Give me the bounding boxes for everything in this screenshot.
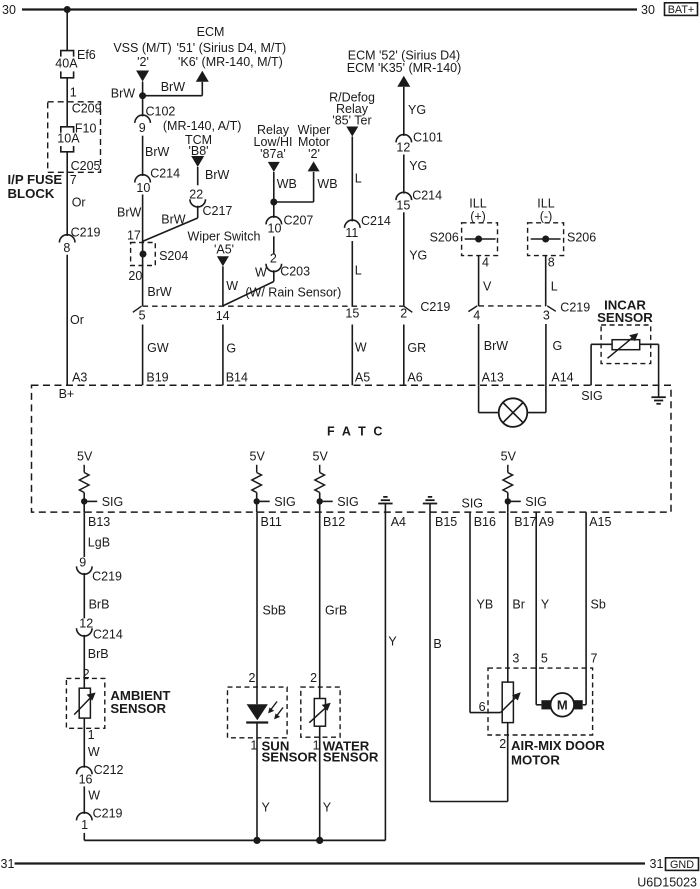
arrow to ECM '52' <box>397 76 410 87</box>
svg-text:8: 8 <box>63 241 70 255</box>
lamp wire right <box>527 385 546 412</box>
wire B12 to water sensor <box>319 512 321 698</box>
label I/P FUSE BLOCK <box>8 172 63 201</box>
wire C214-11 to C219 row <box>351 241 353 306</box>
svg-text:C219: C219 <box>71 225 101 239</box>
wire S206- to C219 <box>545 256 547 306</box>
wire C217 stub <box>197 206 199 218</box>
wire C219-9 to C214-12 <box>83 573 85 618</box>
svg-text:16: 16 <box>79 773 93 787</box>
svg-text:'85' Ter: '85' Ter <box>332 114 371 128</box>
splice S206 (-) dot <box>542 236 549 243</box>
label L (lower) <box>355 263 362 277</box>
svg-text:2: 2 <box>499 737 506 751</box>
label W (A5) <box>355 341 367 355</box>
svg-text:YG: YG <box>409 248 427 262</box>
svg-text:3: 3 <box>543 309 550 323</box>
svg-text:L: L <box>551 279 558 293</box>
svg-text:W: W <box>88 789 100 803</box>
label Ef6 <box>77 48 96 62</box>
label BrB (lower) <box>88 647 109 661</box>
wire 4 to A13 <box>478 324 480 385</box>
svg-text:SIG: SIG <box>274 495 296 509</box>
wire B15 down-right to motor pin 2 <box>430 512 508 801</box>
label Y (A9) <box>541 598 550 612</box>
C219 right seg left tick <box>468 306 477 312</box>
label F A T C <box>327 424 385 438</box>
label Y (A4) <box>388 635 397 649</box>
splice S206 (-) dashed box <box>528 223 564 256</box>
resistor 5V (B13) <box>79 465 89 493</box>
svg-text:'2': '2' <box>308 147 320 161</box>
label BrW (C102-C214) <box>145 145 170 159</box>
svg-text:1: 1 <box>70 85 77 99</box>
svg-text:C101: C101 <box>413 131 443 145</box>
svg-text:'A5': 'A5' <box>214 242 234 256</box>
svg-text:Wiper Switch: Wiper Switch <box>188 229 261 243</box>
pin 2 (C219) <box>400 307 407 321</box>
wire C203 stub <box>273 270 275 281</box>
wire C101 to C214 <box>403 155 405 194</box>
svg-text:BrW: BrW <box>147 285 172 299</box>
pin B16 <box>474 515 496 529</box>
svg-text:BrW: BrW <box>145 145 170 159</box>
svg-text:W: W <box>226 279 238 293</box>
wire 3 to A14 <box>545 324 547 385</box>
svg-text:G: G <box>226 341 236 355</box>
wire sun sensor to ground bus <box>256 723 258 841</box>
SIG stub (B17) <box>508 500 521 502</box>
label SIG (B13) <box>102 495 124 509</box>
svg-text:Y: Y <box>323 801 332 815</box>
pin A3 <box>72 371 87 385</box>
label ECM '52' (Sirius D4) <box>348 49 460 63</box>
svg-text:1: 1 <box>313 738 320 752</box>
label G (A14) <box>553 339 563 353</box>
svg-text:31: 31 <box>1 857 15 871</box>
pin 2 (sun) <box>249 671 256 685</box>
label '2' <box>137 55 149 69</box>
label SbB <box>263 604 287 618</box>
svg-text:11: 11 <box>345 226 358 240</box>
svg-text:BrB: BrB <box>88 647 109 661</box>
wire 5 to B19 <box>142 325 144 386</box>
svg-text:A13: A13 <box>482 370 504 384</box>
pin B12 <box>323 515 345 529</box>
SIG node dot (B11) <box>254 498 260 504</box>
label 10A <box>57 132 80 146</box>
svg-text:B15: B15 <box>435 515 457 529</box>
svg-text:YG: YG <box>409 159 427 173</box>
junction dot (sun) <box>253 837 260 844</box>
ground (incar) <box>651 397 665 404</box>
svg-text:B16: B16 <box>474 515 496 529</box>
svg-text:2: 2 <box>249 671 256 685</box>
label Y (sun) <box>262 801 271 815</box>
label Sb <box>591 598 606 612</box>
connector C214 pin 15 <box>396 188 442 212</box>
wire wiper switch to C219 row <box>222 266 224 306</box>
label TCM <box>185 133 212 147</box>
label YG (mid) <box>409 159 427 173</box>
svg-text:BrW: BrW <box>117 205 142 219</box>
label C219 row <box>420 300 450 314</box>
label BrW left of wire 2 <box>117 205 142 219</box>
label W (C203) <box>255 265 267 279</box>
wire pot pin 2 down <box>507 723 509 802</box>
svg-text:7: 7 <box>591 652 598 666</box>
connector C219 pin 9 <box>77 555 123 583</box>
svg-text:'87a': '87a' <box>260 147 286 161</box>
svg-text:YG: YG <box>408 103 426 117</box>
label G (B14) <box>226 341 236 355</box>
connector C212 pin 16 <box>77 763 124 787</box>
label L (upper) <box>355 172 362 186</box>
svg-text:LgB: LgB <box>88 535 110 549</box>
svg-text:C214: C214 <box>93 627 123 641</box>
svg-text:C219: C219 <box>93 807 123 821</box>
label 30 right <box>641 3 655 17</box>
pin 14 <box>216 309 230 323</box>
5V supply (B13) <box>77 450 93 464</box>
splice S206 (+) dot <box>475 236 482 243</box>
wire B13 down <box>83 512 85 557</box>
splice S206 (-) bar <box>531 238 561 240</box>
svg-text:5V: 5V <box>313 450 329 464</box>
pin 20 <box>128 269 142 283</box>
label '51' (Sirius D4, M/T) <box>177 41 287 55</box>
svg-text:30: 30 <box>641 3 655 17</box>
svg-text:15: 15 <box>345 307 359 321</box>
bus 30 (BAT+) wire <box>22 8 637 10</box>
wire C214-15 to C219 row <box>403 212 405 306</box>
svg-text:VSS (M/T): VSS (M/T) <box>113 41 171 55</box>
label Or (lower) <box>70 313 84 327</box>
svg-text:GR: GR <box>407 341 426 355</box>
SIG stub (B13) <box>84 500 97 502</box>
svg-text:L: L <box>355 172 362 186</box>
svg-text:C102: C102 <box>146 105 176 119</box>
label SIG (incar) <box>581 389 603 403</box>
svg-text:C214: C214 <box>412 188 442 202</box>
svg-text:C207: C207 <box>284 214 314 228</box>
svg-text:(W/ Rain Sensor): (W/ Rain Sensor) <box>245 285 341 299</box>
svg-text:M: M <box>557 698 568 713</box>
connector C214 pin 12 <box>77 617 123 642</box>
label GW <box>147 341 169 355</box>
svg-text:2: 2 <box>310 671 317 685</box>
svg-text:GW: GW <box>147 341 169 355</box>
GND terminal box <box>666 858 699 871</box>
svg-text:5V: 5V <box>250 450 266 464</box>
pin B17 <box>514 515 536 529</box>
wire C214-10 to S204 <box>142 195 144 243</box>
svg-text:Or: Or <box>70 313 84 327</box>
label SIG (B17) <box>525 495 547 509</box>
connector C101 pin 12 <box>396 131 443 155</box>
SIG node dot (B12) <box>317 498 323 504</box>
svg-text:7: 7 <box>70 173 77 187</box>
label Relay Low/HI '87a' <box>254 123 293 161</box>
arrow from Relay Low/HI <box>268 162 280 172</box>
svg-text:2: 2 <box>400 307 407 321</box>
ground (B15) <box>423 497 437 512</box>
5V supply (B11) <box>250 450 266 464</box>
wire C212 to C219-1 <box>83 786 85 814</box>
sun sensor photodiode <box>246 702 283 723</box>
wire A4 to ground bus <box>384 512 386 840</box>
wire VSS arrow to junction <box>142 82 144 117</box>
svg-text:W: W <box>355 341 367 355</box>
svg-text:SbB: SbB <box>263 604 287 618</box>
svg-text:10A: 10A <box>57 132 80 146</box>
svg-text:5: 5 <box>541 652 548 666</box>
label ECM 'K35' (MR-140) <box>347 61 462 75</box>
resistor 5V (B17) <box>503 465 513 493</box>
svg-text:BAT+: BAT+ <box>668 4 695 16</box>
svg-text:31: 31 <box>650 857 664 871</box>
svg-text:Y: Y <box>541 598 550 612</box>
pin 2 (motor) <box>499 737 506 751</box>
splice S206 (+) bar <box>465 238 496 240</box>
connector C214 pin 11 <box>345 214 391 240</box>
arrow from TCM 'B8' <box>191 156 204 167</box>
pin 2 (water) <box>310 671 317 685</box>
BAT+ terminal box <box>665 3 698 16</box>
svg-text:B17: B17 <box>514 515 536 529</box>
connector C203 pin 2 <box>266 251 310 278</box>
pin B13 <box>88 515 110 529</box>
pin A14 <box>551 370 573 384</box>
connector C207 pin 10 <box>266 214 313 236</box>
svg-text:U6D15023: U6D15023 <box>637 876 697 889</box>
5V supply (B17) <box>501 450 517 464</box>
svg-text:SENSOR: SENSOR <box>597 310 653 325</box>
label S206 (+) <box>430 230 459 244</box>
connector C217 pin 22 <box>189 187 232 217</box>
svg-text:4: 4 <box>482 256 489 270</box>
label GR <box>407 341 426 355</box>
label INCAR SENSOR <box>597 298 653 325</box>
I/P fuse block dashed box <box>48 102 101 173</box>
svg-text:B: B <box>433 637 441 651</box>
air-mix motor dashed box <box>488 668 593 735</box>
label BrW (A13) <box>484 339 509 353</box>
label Wiper Motor '2' <box>298 123 331 161</box>
svg-text:12: 12 <box>396 141 410 155</box>
label (MR-140, A/T) <box>163 119 242 133</box>
label WB (right) <box>317 177 337 191</box>
svg-text:SIG: SIG <box>337 495 359 509</box>
splice S206 (+) dashed box <box>462 223 498 256</box>
pin A9 <box>539 515 554 529</box>
label BrW left of VSS junction <box>111 87 136 101</box>
ambient sensor thermistor <box>74 688 95 718</box>
pin B+ <box>59 387 75 401</box>
wire A15 to motor <box>583 512 586 705</box>
label YG (lower) <box>409 248 427 262</box>
resistor 5V (B11) <box>252 465 262 493</box>
connector C214 pin 10 <box>135 167 180 196</box>
svg-text:Ef6: Ef6 <box>77 48 96 62</box>
label W (lower) <box>88 789 100 803</box>
label 'K6' (MR-140, M/T) <box>178 55 283 69</box>
label W (wiper) <box>226 279 238 293</box>
svg-text:(+): (+) <box>470 210 486 224</box>
fuse Ef6 40A <box>61 51 74 78</box>
svg-text:9: 9 <box>79 555 86 569</box>
svg-text:BrW: BrW <box>484 339 509 353</box>
wire resistor to SIG node (B17) <box>507 493 509 513</box>
connector C102 pin 9 <box>135 105 176 135</box>
arrow from VSS <box>136 71 149 82</box>
wire ECM arrow to C101 <box>403 87 405 136</box>
svg-text:SENSOR: SENSOR <box>110 701 166 716</box>
svg-text:4: 4 <box>473 309 480 323</box>
svg-text:Y: Y <box>388 635 397 649</box>
connector C219 row dashed line <box>143 305 404 307</box>
label BrW above link <box>161 80 186 94</box>
wire C207 to C203 <box>273 236 275 254</box>
label Br <box>512 598 525 612</box>
wire B16 to wiper pin 6 <box>470 512 500 713</box>
svg-text:C214: C214 <box>150 167 180 181</box>
label (W/ Rain Sensor) <box>245 285 341 299</box>
svg-text:C212: C212 <box>94 763 124 777</box>
label S204 <box>159 249 188 263</box>
svg-text:BrW: BrW <box>111 87 136 101</box>
wire TCM arrow to C217 <box>197 167 199 185</box>
svg-text:2: 2 <box>270 251 277 265</box>
pin 7 <box>591 652 598 666</box>
motor M <box>541 693 582 717</box>
wire 15 to A5 <box>351 325 353 386</box>
svg-text:AIR-MIX DOOR: AIR-MIX DOOR <box>511 738 605 753</box>
label SIG (B11) <box>274 495 296 509</box>
svg-text:10: 10 <box>268 222 282 236</box>
svg-text:1: 1 <box>250 738 257 752</box>
svg-text:WB: WB <box>317 177 337 191</box>
pin 3 (C219) <box>543 309 550 323</box>
svg-text:G: G <box>553 339 563 353</box>
label SUN SENSOR <box>262 739 318 765</box>
svg-text:14: 14 <box>216 309 230 323</box>
label GrB <box>325 604 347 618</box>
label L (S206) <box>551 279 558 293</box>
svg-text:SIG: SIG <box>581 389 603 403</box>
water sensor dashed box <box>301 687 340 737</box>
svg-text:S204: S204 <box>159 249 188 263</box>
pin A6 <box>407 370 422 384</box>
svg-text:10: 10 <box>136 181 150 195</box>
svg-text:40A: 40A <box>55 57 78 71</box>
splice S204 dashed box <box>131 243 156 266</box>
label ILL (+) <box>469 197 486 224</box>
wire BrW junction to ECM arrow <box>143 82 203 96</box>
svg-text:ECM: ECM <box>197 25 225 39</box>
wire relay to WB junction <box>273 172 275 218</box>
incar wire right <box>640 344 659 397</box>
arrow from R/Defog relay <box>346 127 358 137</box>
svg-text:BrB: BrB <box>89 597 110 611</box>
drawing number U6D15023 <box>637 876 697 889</box>
diagonal wire C203 to pin 14 <box>223 282 273 306</box>
wire ambient to C212 <box>83 718 85 768</box>
svg-text:Y: Y <box>262 801 271 815</box>
wire F10 to C219 <box>66 152 68 236</box>
svg-text:17: 17 <box>127 229 141 243</box>
svg-text:C219: C219 <box>92 569 122 583</box>
svg-text:C209: C209 <box>72 101 102 115</box>
pin 4 (S206) <box>482 256 489 270</box>
svg-text:V: V <box>483 279 492 293</box>
label Or (upper) <box>72 195 86 209</box>
svg-text:A3: A3 <box>72 371 87 385</box>
FATC dashed box <box>32 385 672 512</box>
svg-text:F A T C: F A T C <box>327 424 385 438</box>
svg-text:W: W <box>255 265 267 279</box>
svg-text:1: 1 <box>81 818 88 832</box>
label ILL (-) <box>537 197 554 224</box>
svg-text:A5: A5 <box>355 370 370 384</box>
svg-text:B12: B12 <box>323 515 345 529</box>
pin 17 <box>127 229 141 243</box>
svg-text:Or: Or <box>72 195 86 209</box>
pin 3 <box>512 652 519 666</box>
wire S206+ to C219 <box>478 256 480 306</box>
5V supply (B12) <box>313 450 329 464</box>
sensor ground bus wire <box>84 839 385 841</box>
pin 1 (water) <box>313 738 320 752</box>
wire Ef6 to fuse block <box>66 78 68 127</box>
incar sensor dashed box <box>601 325 651 364</box>
svg-text:B13: B13 <box>88 515 110 529</box>
svg-text:5V: 5V <box>501 450 517 464</box>
label BrW (S204 to C219) <box>147 285 172 299</box>
wire resistor to SIG node (B12) <box>319 493 321 513</box>
label C219 (right) <box>560 300 590 314</box>
label 31 left <box>1 857 15 871</box>
svg-text:SENSOR: SENSOR <box>262 750 318 765</box>
ground (A4) <box>378 497 392 512</box>
pin 1 C209 <box>70 85 77 99</box>
resistor 5V (B12) <box>315 465 325 493</box>
pin B15 <box>435 515 457 529</box>
wire B11 to sun sensor <box>256 512 258 704</box>
pin 5 <box>541 652 548 666</box>
svg-text:A15: A15 <box>589 515 611 529</box>
label YG (top) <box>408 103 426 117</box>
svg-text:S206: S206 <box>430 230 459 244</box>
label YB <box>477 598 494 612</box>
svg-text:YB: YB <box>477 598 494 612</box>
pin 8 (S206) <box>548 256 555 270</box>
label AMBIENT SENSOR <box>110 688 170 716</box>
svg-text:BrW: BrW <box>161 80 186 94</box>
label 30 left <box>2 3 16 17</box>
wire resistor to SIG node (B11) <box>256 493 258 513</box>
label R/Defog Relay '85' Ter <box>329 91 375 128</box>
svg-text:C219: C219 <box>420 300 450 314</box>
svg-text:C219: C219 <box>560 300 590 314</box>
label BrW on diagonal <box>161 212 186 226</box>
junction node on bus 30 <box>64 6 71 13</box>
svg-text:ILL: ILL <box>537 197 554 211</box>
svg-text:SIG: SIG <box>102 495 124 509</box>
fuse F10 10A <box>61 127 74 152</box>
connector C219 right dashed line <box>479 305 546 307</box>
svg-text:8: 8 <box>548 256 555 270</box>
